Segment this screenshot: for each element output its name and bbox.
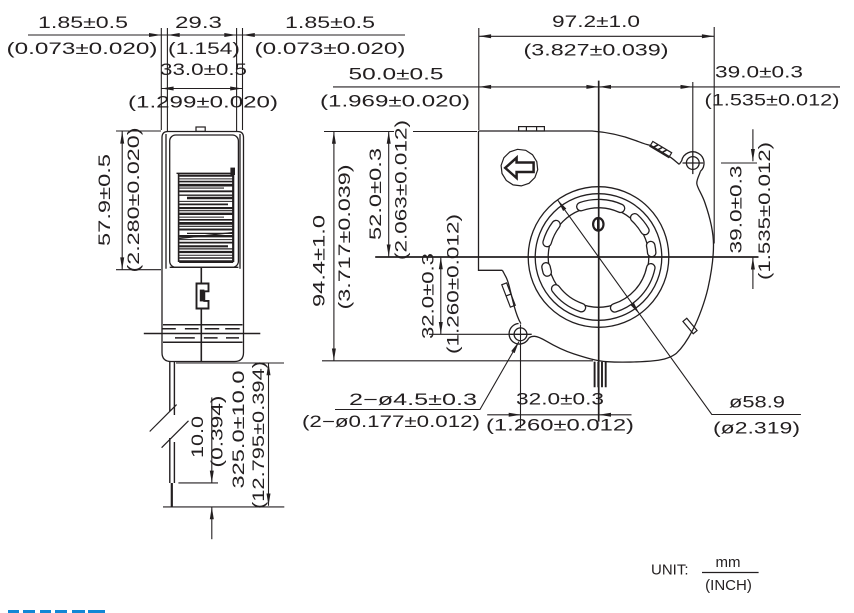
dim 57.9 extension lines <box>116 131 161 270</box>
diameter 58.9 leader line <box>558 200 801 415</box>
svg-text:50.0±0.5: 50.0±0.5 <box>349 66 444 84</box>
svg-text:32.0±0.3: 32.0±0.3 <box>420 253 438 339</box>
svg-text:(12.795±0.394): (12.795±0.394) <box>250 361 268 509</box>
lead wire pair lower <box>170 438 175 483</box>
FRONT VIEW placeholder <box>375 81 758 429</box>
svg-text:UNIT:: UNIT: <box>651 562 689 579</box>
svg-text:1.85±0.5: 1.85±0.5 <box>285 14 375 32</box>
svg-text:(0.073±0.020): (0.073±0.020) <box>255 40 406 58</box>
blade cage left edge <box>178 173 180 262</box>
325.0 top extension line <box>176 362 284 364</box>
side view top mounting tab <box>196 127 205 131</box>
bottom-left hole horizontal extension <box>429 333 510 335</box>
impeller blade hatch (placeholder group) <box>177 168 236 262</box>
inlet outer circle (o58.9) <box>528 187 669 328</box>
blade slant line <box>179 233 233 239</box>
side view center line upper <box>200 267 202 283</box>
svg-text:(2.280±0.020): (2.280±0.020) <box>125 128 143 273</box>
svg-text:52.0±0.3: 52.0±0.3 <box>367 148 385 240</box>
svg-text:(3.717±0.039): (3.717±0.039) <box>336 165 354 310</box>
94.4/52.0 top extension line <box>324 131 477 133</box>
svg-text:(1.260±0.012): (1.260±0.012) <box>486 417 634 435</box>
svg-text:(0.394): (0.394) <box>209 396 227 468</box>
liquid dash row1 <box>163 328 240 330</box>
fan horizontal centerline <box>375 256 758 258</box>
dim line 57.9 <box>121 131 123 269</box>
svg-text:(1.154): (1.154) <box>168 40 240 58</box>
wire break slashes <box>150 405 189 448</box>
lead wire pair upper <box>170 362 175 416</box>
dim line right 39.0 <box>752 129 754 289</box>
liquid line row3 <box>163 341 243 343</box>
svg-text:94.4±1.0: 94.4±1.0 <box>311 215 329 307</box>
dim line 32.0 bottom <box>487 414 631 416</box>
top-right hatched tab <box>650 141 672 157</box>
svg-text:(ø2.319): (ø2.319) <box>713 420 800 438</box>
bottom-left mounting ear <box>509 324 529 345</box>
svg-text:97.2±1.0: 97.2±1.0 <box>552 13 640 31</box>
top-right mounting hole <box>683 153 704 175</box>
dim line 325.0 <box>268 363 270 506</box>
liquid line row1 <box>163 324 243 326</box>
svg-text:57.9±0.5: 57.9±0.5 <box>96 154 114 246</box>
svg-text:(2.063±0.012): (2.063±0.012) <box>393 120 411 260</box>
top inlet tab <box>519 127 545 131</box>
DIMENSIONS placeholder <box>28 27 840 539</box>
dim line 10.0 upper <box>211 397 213 483</box>
dim line 52.0 <box>388 132 390 257</box>
bottom-left mounting hole <box>510 328 532 341</box>
svg-text:39.0±0.3: 39.0±0.3 <box>715 64 803 82</box>
svg-text:mm: mm <box>716 554 741 571</box>
blade cage top line <box>177 172 235 174</box>
inlet ring circle <box>535 194 662 321</box>
svg-text:10.0: 10.0 <box>189 416 207 458</box>
unit fraction bar <box>702 572 759 574</box>
blade cage right dark edge <box>232 175 234 262</box>
94.4 bottom extension line <box>322 360 593 362</box>
svg-text:(1.535±0.012): (1.535±0.012) <box>756 142 774 280</box>
dim line 32.0 left <box>440 257 442 334</box>
side view housing/motor split line <box>170 266 239 268</box>
svg-text:(1.299±0.020): (1.299±0.020) <box>128 94 278 112</box>
inlet inner circle <box>548 207 649 308</box>
dim line 50.0 / 39.0 top <box>333 86 840 88</box>
bottom-left hole vertical extension <box>520 325 522 429</box>
front view scroll housing outline <box>479 131 680 164</box>
svg-text:(1.535±0.012): (1.535±0.012) <box>705 92 840 110</box>
bottom-left blue partial text <box>8 610 105 613</box>
rotation direction circle <box>501 149 538 186</box>
blade cage top-right corner mark <box>230 168 235 175</box>
2-o4.5 leader line <box>335 342 519 410</box>
lower-left edge tab <box>502 283 515 307</box>
lower-right edge tab <box>683 318 697 333</box>
left edge and bottom-left corner <box>479 131 503 270</box>
svg-text:(3.827±0.039): (3.827±0.039) <box>524 42 669 60</box>
left lower diagonal edge <box>502 270 521 323</box>
dim line 10.0 lower arrow <box>211 507 213 539</box>
svg-text:29.3: 29.3 <box>175 14 222 32</box>
top-right hole vertical extension <box>692 82 694 153</box>
connector outline <box>197 284 209 309</box>
dim line 33.0 <box>161 88 242 90</box>
top-right mounting ear <box>679 152 704 172</box>
impeller blades hatch lines <box>179 176 233 262</box>
side view inner wall left <box>165 134 167 269</box>
svg-text:2−ø4.5±0.3: 2−ø4.5±0.3 <box>349 391 477 409</box>
connector inner black bar <box>200 290 205 302</box>
small motor wire hole <box>593 218 603 231</box>
svg-text:325.0±10.0: 325.0±10.0 <box>230 371 248 489</box>
svg-text:32.0±0.3: 32.0±0.3 <box>516 391 604 409</box>
side view center line through motor <box>200 308 202 362</box>
scroll right + bottom outline <box>529 171 714 362</box>
svg-text:(INCH): (INCH) <box>705 577 752 594</box>
97.2 extension lines <box>479 27 714 244</box>
dim line 94.4 <box>333 132 335 361</box>
svg-text:(0.073±0.020): (0.073±0.020) <box>7 40 158 58</box>
liquid dash row2 <box>175 337 239 339</box>
liquid long line <box>144 333 260 335</box>
svg-text:1.85±0.5: 1.85±0.5 <box>38 14 128 32</box>
right 39.0 hole-level extension <box>721 162 757 164</box>
svg-text:(1.260±0.012): (1.260±0.012) <box>445 214 463 354</box>
svg-text:33.0±0.5: 33.0±0.5 <box>160 61 247 79</box>
10.0 tie line <box>178 482 218 484</box>
lead wires front view <box>595 362 606 388</box>
svg-text:ø58.9: ø58.9 <box>729 394 785 412</box>
stripped wire end <box>171 483 173 507</box>
svg-text:39.0±0.3: 39.0±0.3 <box>728 166 746 254</box>
wire end extension line <box>163 506 284 508</box>
dim line 1.85/29.3/1.85 <box>28 34 405 36</box>
side view inner wall right <box>239 134 241 269</box>
dim line 97.2 <box>479 35 714 37</box>
svg-text:(1.969±0.020): (1.969±0.020) <box>320 93 470 111</box>
rotation direction block arrow <box>505 158 533 178</box>
extension lines side view top <box>161 28 242 132</box>
side view outer housing body <box>162 132 244 362</box>
side view inner rounded rect (inlet profile) <box>170 135 239 267</box>
fan vertical centerline <box>598 81 600 422</box>
inlet ring slots <box>546 204 652 308</box>
svg-text:(2−ø0.177±0.012): (2−ø0.177±0.012) <box>302 413 480 431</box>
